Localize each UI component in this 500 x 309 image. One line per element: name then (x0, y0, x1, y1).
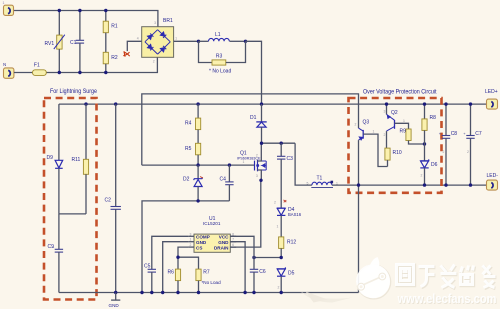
svg-text:D2: D2 (183, 177, 190, 183)
svg-text:2: 2 (443, 150, 445, 154)
resistor R2 (103, 52, 118, 72)
capacitor C5 (144, 264, 156, 293)
ground symbol GND (109, 293, 121, 308)
svg-text:2: 2 (256, 154, 258, 158)
svg-text:1: 1 (373, 130, 375, 134)
svg-text:GND: GND (109, 303, 120, 308)
node DC rail / Q2 emitter (385, 102, 388, 105)
node AC rail / RV1 (58, 71, 61, 74)
svg-text:R12: R12 (287, 239, 296, 245)
svg-text:2: 2 (384, 133, 386, 137)
node top rail / R1 (104, 9, 107, 12)
svg-text:F1: F1 (34, 63, 40, 69)
svg-text:C8: C8 (451, 131, 458, 137)
wire T1 feed (295, 143, 312, 185)
node drain rail / D1 Q1 (260, 142, 263, 145)
wire BR1 pin1 to L1 (174, 40, 199, 42)
wire BR1 pin4 stub (127, 41, 141, 51)
svg-text:R9: R9 (400, 129, 407, 135)
node L1 left (197, 40, 200, 43)
terminal LED+ (485, 89, 498, 109)
resistor R6 (168, 269, 181, 292)
diode D4 BAS16 (274, 200, 302, 237)
svg-text:ICL5201: ICL5201 (203, 221, 221, 226)
svg-text:Q2: Q2 (391, 110, 398, 116)
node DC rail / L1 feed (260, 102, 263, 105)
wire D2/C4 bottom to CS-sense drop (142, 201, 229, 293)
node top rail / C1 (78, 9, 81, 12)
wire main DC rail (59, 103, 487, 105)
resistor R11 (72, 104, 89, 214)
node DC rail / R4 (196, 102, 199, 105)
node L1 right (244, 40, 247, 43)
node D2 bottom (196, 199, 199, 202)
node gate wire / C4 (228, 163, 231, 166)
svg-text:3: 3 (190, 232, 192, 236)
zener D6 (420, 159, 437, 185)
resistor R12 (279, 237, 297, 258)
node GND rail / C2 (114, 291, 117, 294)
wire VCC node (254, 257, 281, 259)
svg-text:1: 1 (277, 225, 279, 229)
svg-text:R5: R5 (185, 146, 192, 152)
wire GND left pin (163, 242, 188, 293)
svg-text:2: 2 (421, 174, 423, 178)
svg-text:3: 3 (154, 21, 156, 25)
terminal N (3, 62, 14, 78)
wire primary GND rail (59, 292, 359, 294)
varistor RV1 (45, 11, 65, 73)
resistor R7 (196, 269, 221, 292)
wire COMP to C5 (152, 236, 188, 269)
node LED- rail / D6 (423, 183, 426, 186)
transistor Q2 (384, 104, 409, 148)
node DC rail / R8 (423, 102, 426, 105)
diode D9 (47, 104, 63, 214)
svg-text:COMP: COMP (196, 235, 210, 240)
wire L1 to DC rail (246, 41, 262, 104)
mosfet Q1 (237, 143, 266, 180)
svg-text:1: 1 (403, 119, 405, 123)
node drain rail / C3 (280, 142, 283, 145)
capacitor C8 (439, 104, 458, 185)
wire gate feedback (BR1- side) (142, 94, 359, 165)
node R9 / R8 line (423, 142, 426, 145)
node GND rail / sense drop (140, 291, 143, 294)
diode D1 (250, 104, 267, 143)
svg-text:Over Voltage Protection Circui: Over Voltage Protection Circuit (363, 90, 437, 96)
node DC rail / C2 (114, 102, 117, 105)
svg-text:4: 4 (137, 37, 139, 41)
fuse F1 (33, 63, 47, 76)
transistor Q3 (355, 120, 388, 293)
node GND rail / R6 (176, 291, 179, 294)
node GND rail / C6 (252, 291, 255, 294)
wire bottom AC rail (14, 57, 158, 72)
watermark text 电子发烧友 shadow (397, 265, 496, 288)
svg-text:2: 2 (278, 286, 280, 290)
capacitor C9 (48, 214, 64, 293)
node AC rail / C1 (78, 71, 81, 74)
svg-text:GND: GND (196, 240, 207, 245)
svg-text:N: N (3, 62, 6, 67)
svg-text:2: 2 (467, 150, 469, 154)
resistor R4 (185, 104, 201, 143)
node Q3 emitter / LED- rail (357, 183, 360, 186)
svg-text:RV1: RV1 (45, 41, 55, 47)
capacitor C2 (105, 104, 121, 292)
zener D5 (277, 267, 295, 292)
svg-text:C6: C6 (259, 269, 266, 275)
node LED- rail / C7 (469, 183, 472, 186)
wire LED- rail (332, 184, 487, 186)
resistor R8 (422, 104, 436, 161)
wire DRAIN pin to Q1 source (230, 180, 260, 247)
node GND rail / GND pin1 (161, 291, 164, 294)
resistor R1 (103, 11, 118, 53)
zener D2 (183, 165, 203, 201)
svg-text:BR1: BR1 (163, 18, 173, 24)
svg-text:C5: C5 (144, 264, 151, 270)
svg-text:D5: D5 (288, 270, 295, 276)
svg-text:R8: R8 (430, 115, 437, 121)
svg-text:5: 5 (307, 182, 309, 186)
watermark swoosh (301, 292, 353, 303)
svg-text:R7: R7 (203, 270, 210, 276)
node VCC / C6 (252, 256, 255, 259)
svg-text:1: 1 (175, 37, 177, 41)
svg-text:C1: C1 (70, 40, 77, 46)
svg-text:2: 2 (190, 243, 192, 247)
svg-text:2: 2 (153, 59, 155, 63)
node Q1 source / DRAIN (259, 179, 262, 182)
inductor T1 (307, 176, 339, 188)
terminal LED- (487, 173, 499, 190)
no-ERC marker at BR1 pin4 (123, 51, 129, 56)
svg-text:1: 1 (243, 160, 245, 164)
node DC rail / C7 (469, 102, 472, 105)
svg-text:3: 3 (384, 110, 386, 114)
IC U1 ICL5201 (188, 216, 236, 252)
resistor R9 (400, 129, 425, 144)
wire drain rail (262, 142, 296, 144)
svg-text:1: 1 (3, 1, 5, 5)
capacitor C4 (220, 165, 234, 201)
node gate wire / R5 D2 (196, 163, 199, 166)
inductor L1 (199, 32, 246, 41)
node VCC / R12 D5 (280, 256, 283, 259)
svg-text:T1: T1 (317, 176, 323, 182)
svg-text:BAS16: BAS16 (288, 212, 302, 217)
svg-text:GND: GND (218, 240, 229, 245)
bridge rectifier BR1 (137, 18, 177, 63)
svg-text:2: 2 (274, 201, 276, 205)
svg-text:R10: R10 (393, 150, 402, 156)
node GND rail / GND pin7 (243, 291, 246, 294)
node LED- rail / C8 (444, 183, 447, 186)
resistor R10 (385, 148, 402, 166)
capacitor C6 (250, 258, 266, 293)
node DC rail / C8 (444, 102, 447, 105)
svg-text:Q3: Q3 (363, 120, 370, 126)
node DC rail / R11 (84, 102, 87, 105)
svg-text:R3: R3 (216, 54, 223, 60)
svg-text:LED-: LED- (487, 173, 499, 179)
svg-text:DRAIN: DRAIN (214, 246, 229, 251)
svg-text:2: 2 (355, 123, 357, 127)
svg-text:R1: R1 (111, 24, 118, 30)
svg-text:C4: C4 (220, 176, 227, 182)
watermark logo circle (356, 257, 391, 299)
wire VCC pin (230, 236, 254, 257)
svg-text:R6: R6 (168, 270, 175, 276)
svg-text:*No Load: *No Load (202, 280, 222, 285)
watermark text 电子发烧友 (397, 265, 496, 288)
svg-text:LED+: LED+ (485, 89, 498, 95)
svg-text:www.elecfans.com: www.elecfans.com (397, 292, 497, 306)
node top rail / RV1 (58, 9, 61, 12)
wire CS pin to R6/R7 (178, 247, 188, 269)
svg-text:For Lightning Surge: For Lightning Surge (50, 89, 98, 95)
capacitor C1 (70, 11, 84, 73)
node GND rail / C5 (150, 291, 153, 294)
svg-text:C7: C7 (475, 131, 482, 137)
svg-text:C3: C3 (287, 156, 294, 162)
svg-text:CS: CS (196, 246, 202, 251)
wire gate node horizontal (142, 164, 255, 166)
svg-text:D6: D6 (431, 162, 438, 168)
resistor R5 (185, 143, 201, 165)
wire top rail L (13, 11, 158, 27)
svg-text:D1: D1 (250, 115, 257, 121)
svg-text:R11: R11 (72, 157, 81, 163)
terminal L (3, 1, 14, 16)
Over Voltage Protection Circuit box (349, 90, 442, 193)
svg-text:* No Load: * No Load (209, 69, 231, 75)
svg-text:VCC: VCC (219, 235, 229, 240)
svg-text:L1: L1 (215, 32, 221, 38)
node GND rail / D5 (280, 291, 283, 294)
node CS branch (176, 256, 179, 259)
resistor R3 (bypass of L1) (199, 41, 246, 74)
capacitor C3 (277, 143, 293, 208)
svg-text:R2: R2 (111, 55, 118, 61)
node GND rail / R7 (197, 291, 200, 294)
For Lightning Surge box (44, 89, 98, 300)
svg-text:3: 3 (256, 174, 258, 178)
node AC rail / R2 (104, 71, 107, 74)
svg-text:C2: C2 (105, 198, 112, 204)
svg-text:D9: D9 (47, 155, 54, 161)
wire D9/R11 join (59, 213, 86, 215)
svg-text:R4: R4 (185, 121, 192, 127)
wire GND right pin (230, 242, 245, 293)
svg-text:1: 1 (190, 238, 192, 242)
capacitor C7 (463, 104, 482, 185)
